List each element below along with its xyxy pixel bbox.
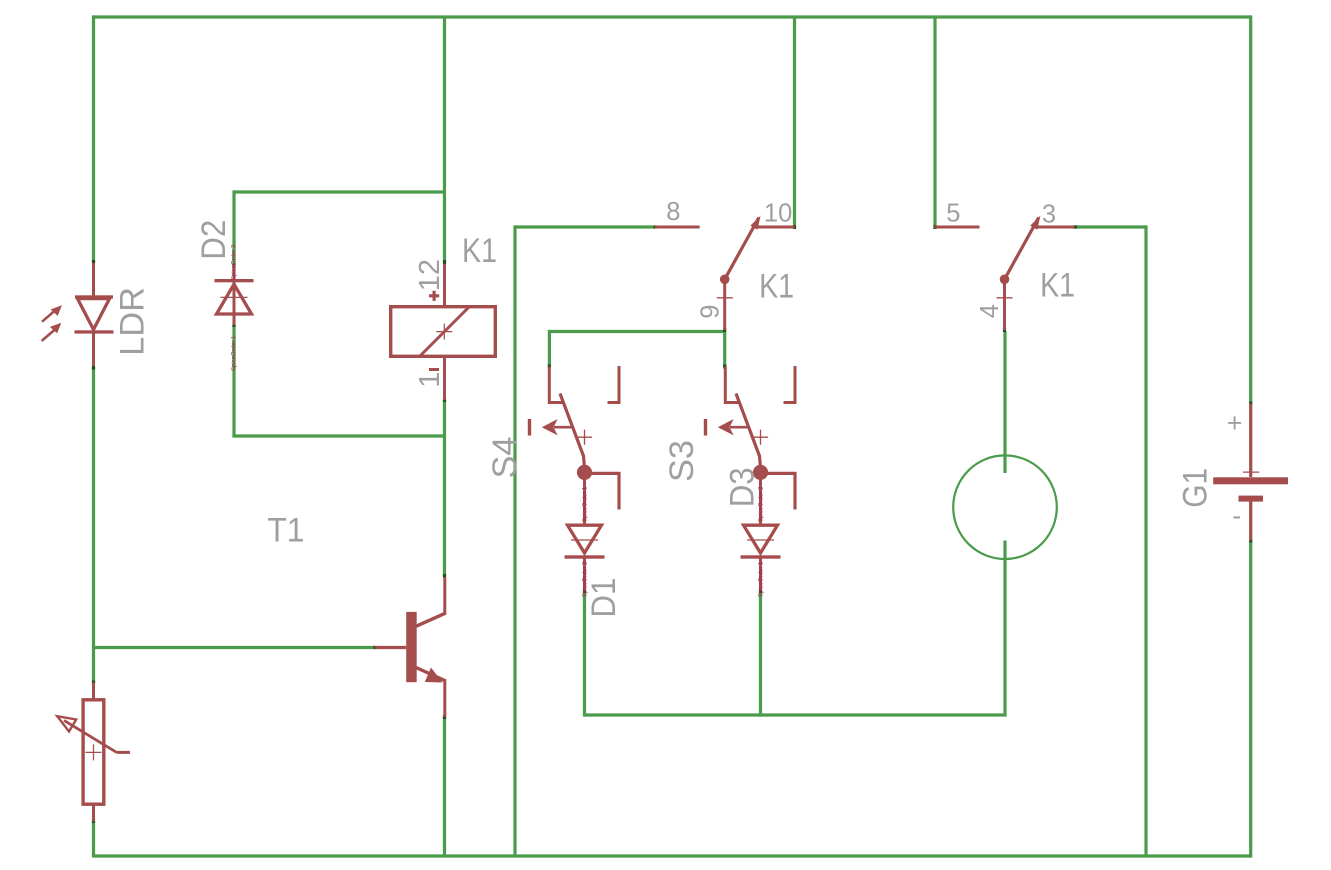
label D3 [724,467,762,507]
wire emitter to bottom rail [443,717,446,856]
wire pin10 vertical [793,17,796,227]
potentiometer R1 [57,683,130,822]
pin label 3 [1042,201,1056,229]
value label SpiceOrder 1 of D1 [583,486,589,522]
svg-text:LDR: LDR [113,287,151,356]
relay contact K1 (5-4-3) [935,216,1075,330]
diode D3 [741,525,781,591]
wire base [94,646,376,649]
wire D2 branch lower [232,325,235,436]
label K1 (contact b) [1040,267,1075,305]
svg-text:G1: G1 [1177,468,1215,508]
svg-text:SpiceOrder 1: SpiceOrder 1 [583,486,589,522]
svg-text:SpiceOrder 2: SpiceOrder 2 [583,561,589,597]
svg-text:S3: S3 [663,440,701,482]
pin label 9 [697,305,725,319]
value label SpiceOrder 2 of D1 [583,561,589,597]
svg-text:SpiceOrder 1: SpiceOrder 1 [759,561,765,597]
svg-text:K1: K1 [462,232,497,270]
svg-text:10: 10 [764,200,792,228]
svg-text:SpiceOrder 2: SpiceOrder 2 [759,486,765,522]
label G1 [1177,468,1215,508]
svg-text:8: 8 [666,198,680,226]
svg-text:-: - [1232,500,1241,530]
wire D1 cathode down [583,591,586,717]
transistor T1 [375,577,446,717]
diode D2 [215,265,254,325]
svg-text:9: 9 [697,305,725,319]
label D1 [585,578,623,618]
svg-text:SpiceOrder 2: SpiceOrder 2 [232,244,238,280]
wire right rail upper [1249,15,1252,403]
wire pin3 horizontal [1073,225,1146,228]
wire lamp bottom [1003,541,1006,716]
svg-text:D1: D1 [585,578,623,618]
svg-text:12: 12 [414,259,446,291]
label LDR [113,287,151,356]
label S4 [486,437,524,479]
value label SpiceOrder 2 of D3 [759,486,765,522]
wire left rail lower [92,821,95,856]
wire pin9 to S4 [548,330,551,367]
wire pin8 vertical [513,225,516,856]
polarity label + [1227,408,1242,438]
label K1 (coil) [462,232,497,270]
wire junctions (pin joints) [94,225,1251,823]
svg-text:SpiceOrder 1: SpiceOrder 1 [232,335,238,371]
svg-text:K1: K1 [1040,267,1075,305]
diode D1 [565,525,605,591]
lamp H1 circle [953,455,1057,559]
battery G1 [1213,404,1288,541]
svg-text:T1: T1 [267,512,304,550]
label K1 (contact a) [759,268,794,306]
pin label 1 [414,372,446,388]
label D2 [195,220,233,260]
wire coil to collector [443,400,446,576]
wire left rail middle [92,367,95,683]
wire lamp return horizontal [585,713,1007,716]
wire D2 loop bottom [232,434,444,437]
wire left rail upper [92,15,95,262]
wire top rail [94,15,1251,18]
wire D2 branch upper [232,190,235,265]
wire pin5 vertical [933,17,936,227]
wire pin9 horizontal [549,330,724,333]
value label SpiceOrder 2 of D2 [232,244,238,280]
label T1 [267,512,304,550]
svg-text:S4: S4 [486,437,524,479]
svg-text:D3: D3 [724,467,762,507]
pin label 4 [976,304,1004,318]
svg-text:3: 3 [1042,201,1056,229]
value label SpiceOrder 1 of D2 [232,335,238,371]
pin label 5 [946,200,960,228]
pin label 12 [414,259,446,291]
wire right rail lower [1249,541,1252,858]
wire pin4 to lamp [1003,331,1006,473]
polarity label - [1232,500,1241,530]
wire bottom rail [92,854,1251,857]
wire pin8 horizontal [515,225,655,228]
pushbutton S4 [530,366,620,524]
svg-text:K1: K1 [759,268,794,306]
photodiode LDR [42,263,114,366]
label S3 [663,440,701,482]
value label SpiceOrder 1 of D3 [759,561,765,597]
relay contact K1 (8-9-10) [655,216,795,330]
wire D2 loop top [234,190,445,193]
svg-text:5: 5 [946,200,960,228]
svg-text:1: 1 [414,372,446,388]
wire D3 cathode down [759,591,762,717]
svg-text:4: 4 [976,304,1004,318]
wire pin9 to S3 [723,332,726,367]
svg-text:+: + [1227,408,1242,438]
wire V+ vertical to relay coil [443,17,446,262]
pin label 8 [666,198,680,226]
svg-text:D2: D2 [195,220,233,260]
pushbutton S3 [706,366,796,524]
relay coil K1 [391,264,496,400]
pin label 10 [764,200,792,228]
wire pin3 vertical [1144,225,1147,856]
